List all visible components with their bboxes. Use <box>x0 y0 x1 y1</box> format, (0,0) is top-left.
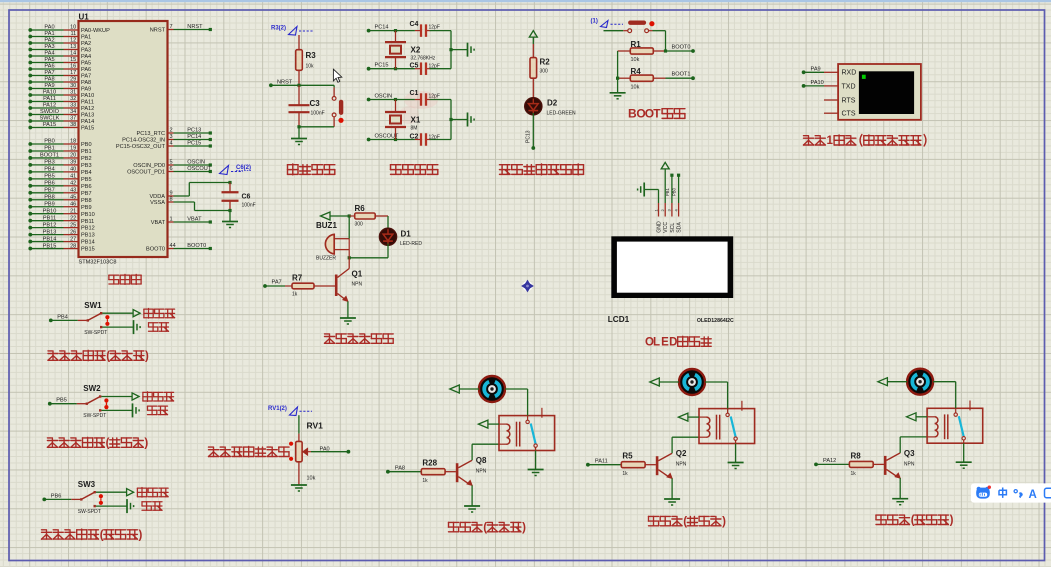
svg-text:PA5: PA5 <box>81 61 91 67</box>
node PA11 net label <box>586 459 608 467</box>
OLED pin 2 VCC <box>660 203 669 233</box>
transistor Q3 NPN <box>885 449 915 478</box>
svg-text:PB10: PB10 <box>43 208 57 214</box>
svg-text:C4: C4 <box>410 21 419 28</box>
svg-text:C5: C5 <box>410 63 419 70</box>
svg-text:10k: 10k <box>307 476 316 482</box>
wire top of RV1 <box>298 415 300 441</box>
U1 pin 41 (PB5) with net PB5 <box>28 174 91 183</box>
wire SW2 upper throw to power arrow <box>101 393 139 400</box>
wire SW3 lower throw to ground <box>96 499 134 513</box>
svg-text:R5: R5 <box>622 452 633 461</box>
caption triggered (for SW3) <box>142 502 162 511</box>
svg-text:SW-SPDT: SW-SPDT <box>83 413 106 419</box>
U1 pin 15 (PA5) with net PA5 <box>28 57 91 66</box>
svg-text:41: 41 <box>70 174 76 180</box>
svg-text:PA9: PA9 <box>44 83 54 89</box>
svg-text:6: 6 <box>170 166 173 172</box>
blue hint marker (1) <box>591 19 624 28</box>
U1 pin 46 (PB9) with net PB9 <box>28 201 91 210</box>
motor (load) <box>907 369 933 395</box>
U1 pin 29 (PA8) with net PA8 <box>28 77 91 86</box>
svg-text:PA12: PA12 <box>823 458 836 464</box>
svg-text:1k: 1k <box>622 471 628 477</box>
svg-text:SW2: SW2 <box>83 384 101 393</box>
svg-text:PA0: PA0 <box>44 25 54 31</box>
svg-text:OSCIN: OSCIN <box>375 94 393 100</box>
U1 pin 17 (PA7) with net PA7 <box>28 70 91 79</box>
capacitor C4 12pF <box>410 21 440 37</box>
ground of BOOT circuit <box>610 77 626 99</box>
capacitor C2 12pF <box>410 133 440 146</box>
terminal pin RTS <box>824 97 856 104</box>
junction and ground right of X1 <box>449 113 474 127</box>
switch SW2 SW-SPDT <box>83 384 108 419</box>
svg-text:PB9: PB9 <box>81 205 92 211</box>
svg-text:PA6: PA6 <box>81 67 91 73</box>
blue hint marker C6(2) <box>220 165 253 175</box>
svg-text:PB15: PB15 <box>81 247 95 253</box>
svg-text:C2: C2 <box>410 134 419 141</box>
svg-text:LED-RED: LED-RED <box>400 241 422 247</box>
svg-text:PA3: PA3 <box>81 48 91 54</box>
motor (load) <box>479 376 505 402</box>
svg-text:SW1: SW1 <box>84 301 102 310</box>
svg-text:31: 31 <box>70 90 76 96</box>
svg-text:PA2: PA2 <box>81 41 91 47</box>
wire PA12 to R8 <box>816 463 849 465</box>
power arrow left of R6 <box>321 212 350 220</box>
U1 pin 20 (PB2) with net BOOT1 <box>28 153 91 162</box>
svg-text:PA9: PA9 <box>81 87 91 93</box>
svg-text:PB4: PB4 <box>44 167 55 173</box>
svg-text:PA3: PA3 <box>44 44 54 50</box>
svg-text:R6: R6 <box>355 204 366 213</box>
svg-text:PB7: PB7 <box>44 187 55 193</box>
caption triggered (for SW1) <box>149 323 169 332</box>
LCD1 OLED display body <box>611 236 733 298</box>
terminal screen <box>859 71 914 114</box>
crystal X1 8M <box>385 100 421 140</box>
svg-text:13: 13 <box>70 44 76 50</box>
origin marker cross <box>522 280 533 291</box>
svg-text:R1: R1 <box>631 40 642 49</box>
svg-text:RV1(2): RV1(2) <box>268 406 287 412</box>
power arrow to relay coil <box>478 420 499 428</box>
svg-text:11: 11 <box>70 31 76 37</box>
relay contact <box>526 408 542 451</box>
svg-text:Q2: Q2 <box>676 449 687 458</box>
U1 pin 38 (PA15) with net PA15 <box>28 122 94 131</box>
caption IR sensor (soap) <box>48 350 149 362</box>
svg-text:21: 21 <box>70 208 76 214</box>
svg-text:PA0: PA0 <box>320 447 330 453</box>
svg-text:C6(2): C6(2) <box>236 165 251 171</box>
node PA7 net label <box>263 280 285 288</box>
svg-text:OSCOUT: OSCOUT <box>187 166 212 172</box>
svg-text:PC15: PC15 <box>187 141 201 147</box>
caption sound-light alarm circuit <box>325 334 394 343</box>
svg-text:PB2: PB2 <box>81 156 92 162</box>
U1 pin 40 (PB4) with net PB4 <box>28 167 91 176</box>
svg-text:PC13: PC13 <box>526 130 532 143</box>
svg-text:BOOT0: BOOT0 <box>672 45 691 51</box>
svg-text:12pF: 12pF <box>429 135 440 141</box>
svg-text:R3(2): R3(2) <box>271 26 286 32</box>
svg-text:PA13: PA13 <box>81 113 94 119</box>
U1 pin 6 OSCOUT_PD1 <box>127 166 212 175</box>
resistor R7 1k <box>285 274 335 298</box>
svg-text:25: 25 <box>70 222 76 228</box>
svg-text:NPN: NPN <box>352 282 363 288</box>
svg-text:1: 1 <box>827 135 834 147</box>
potentiometer RV1 10k <box>289 421 323 482</box>
svg-text:RTS: RTS <box>842 97 856 104</box>
caption 继电器(烘干机) <box>876 515 954 527</box>
U1 pin 32 (PA11) with net PA11 <box>28 96 93 105</box>
svg-text:PB13: PB13 <box>81 233 95 239</box>
resistor R6 300 <box>348 204 388 228</box>
wire button bottom to C3 bottom <box>297 125 334 128</box>
svg-text:300: 300 <box>355 222 364 228</box>
svg-text:): ) <box>522 522 526 534</box>
svg-text:(1): (1) <box>591 19 598 25</box>
U1 pin 28 (PB15) with net PB15 <box>28 243 94 252</box>
svg-text:PB5: PB5 <box>56 398 67 404</box>
wire motor right to relay NO contact <box>505 389 528 416</box>
resistor R3 10k <box>296 35 317 85</box>
wire SW1 lower throw to ground <box>102 320 140 334</box>
capacitor C5 12pF <box>410 62 440 74</box>
svg-text:12pF: 12pF <box>429 25 440 31</box>
svg-text:PC15-OSC32_OUT: PC15-OSC32_OUT <box>116 144 166 150</box>
svg-text:PB6: PB6 <box>44 181 55 187</box>
caption untriggered (for SW1) <box>144 309 175 319</box>
U1 pin 42 (PB6) with net PB6 <box>28 181 91 190</box>
caption program run indicator <box>500 164 584 175</box>
wire buzzer rail <box>348 216 350 258</box>
svg-text:SCL: SCL <box>670 223 676 233</box>
U1 pin 2 PC13_RTC <box>137 128 212 137</box>
svg-text:100nF: 100nF <box>242 203 256 209</box>
svg-text:12pF: 12pF <box>429 94 440 100</box>
node PC14 net label <box>367 25 389 33</box>
svg-text:PA12: PA12 <box>81 106 94 112</box>
ground below RV1 <box>291 462 307 491</box>
svg-text:PA2: PA2 <box>44 38 54 44</box>
svg-text:OSCOUT_PD1: OSCOUT_PD1 <box>127 170 165 176</box>
svg-text:PB4: PB4 <box>57 314 68 320</box>
svg-text:29: 29 <box>70 77 76 83</box>
caption IR sensor (faucet) <box>47 437 148 449</box>
svg-text:PB9: PB9 <box>44 201 55 207</box>
wire Q3 collector to relay coil <box>900 437 927 453</box>
svg-text:BUZ1: BUZ1 <box>316 221 337 230</box>
svg-text:Q8: Q8 <box>476 456 487 465</box>
U1 pin 16 (PA6) with net PA6 <box>28 64 91 73</box>
svg-text:PB11: PB11 <box>43 215 56 221</box>
wire PB5 to switch SW2 <box>50 403 86 405</box>
U1 pin 5 OSCIN_PD0 <box>133 160 212 169</box>
wire SW3 upper throw to power arrow <box>96 489 134 496</box>
wire SCL pin up <box>665 174 674 203</box>
svg-text:PA5: PA5 <box>44 57 54 63</box>
wire motor left to power arrow <box>450 385 479 393</box>
svg-text:PA8: PA8 <box>395 466 405 472</box>
svg-text:): ) <box>722 516 726 528</box>
svg-text:T: T <box>653 107 661 121</box>
svg-text:12pF: 12pF <box>429 64 440 70</box>
crystal X2 32.768KHz <box>385 31 436 69</box>
svg-text:10k: 10k <box>306 64 315 70</box>
svg-text:8M: 8M <box>411 126 418 132</box>
wire GND pin to ground (left) <box>638 183 659 204</box>
svg-text:PC14-OSC32_IN: PC14-OSC32_IN <box>122 138 165 144</box>
svg-text:43: 43 <box>70 187 76 193</box>
wire D1 to junction <box>348 244 388 260</box>
svg-text:PB7: PB7 <box>81 191 92 197</box>
capacitor C3 100nF <box>289 85 325 127</box>
svg-text:(: ( <box>483 522 487 534</box>
IME toolbar <box>971 483 1051 502</box>
svg-text:8: 8 <box>170 197 173 203</box>
capacitor C6 100nF <box>222 181 256 212</box>
svg-text:PB14: PB14 <box>81 240 95 246</box>
caption main chip <box>109 274 141 284</box>
svg-text:A: A <box>1029 489 1037 501</box>
U1 pin 21 (PB10) with net PB10 <box>28 208 94 217</box>
node PB5 net label <box>48 398 67 406</box>
node PA0 from RV1 wiper <box>311 447 350 454</box>
svg-text:PB0: PB0 <box>81 142 92 148</box>
svg-text:VSSA: VSSA <box>150 200 165 206</box>
svg-text:PB12: PB12 <box>81 226 95 232</box>
caption serial window (phone side) <box>804 135 926 148</box>
svg-text:SDA: SDA <box>677 222 683 233</box>
svg-text:18: 18 <box>70 139 76 145</box>
svg-text:VBAT: VBAT <box>187 217 202 223</box>
top window edge strip <box>0 0 1051 2</box>
svg-text:PB12: PB12 <box>43 222 57 228</box>
svg-text:PA4: PA4 <box>44 51 54 57</box>
caption untriggered (for SW3) <box>137 488 168 498</box>
relay contact <box>726 401 742 444</box>
power arrow above R2 <box>529 31 537 58</box>
svg-text:NRST: NRST <box>150 28 166 34</box>
svg-text:OSCIN: OSCIN <box>187 160 205 166</box>
svg-text:CTS: CTS <box>842 111 856 118</box>
caption crystal circuit <box>391 165 438 175</box>
svg-text:34: 34 <box>70 109 76 115</box>
switch SW3 SW-SPDT <box>78 480 103 515</box>
svg-text:14: 14 <box>70 51 76 57</box>
svg-text:PA8: PA8 <box>44 77 54 83</box>
node OSCOUT net label <box>367 134 399 142</box>
resistor R2 300 <box>530 58 550 79</box>
wire button right to BOOT0 row <box>649 31 666 51</box>
terminal pin RXD <box>824 70 856 77</box>
svg-text:20: 20 <box>70 153 76 159</box>
svg-text:PB5: PB5 <box>81 177 92 183</box>
svg-text:D: D <box>669 337 677 349</box>
U1 pin 25 (PB12) with net PB12 <box>28 222 94 231</box>
node PA9 to RXD <box>802 66 824 74</box>
relay body <box>927 408 983 443</box>
svg-text:SW3: SW3 <box>78 480 96 489</box>
svg-text:PC14: PC14 <box>187 134 201 140</box>
svg-text:17: 17 <box>70 70 76 76</box>
motor (load) <box>679 369 705 395</box>
wire PA11 to R5 <box>588 464 621 466</box>
push button (boot select) <box>628 21 655 33</box>
U1 pin 26 (PB13) with net PB13 <box>28 229 94 238</box>
svg-text:PB15: PB15 <box>43 243 57 249</box>
svg-text:R8: R8 <box>851 451 862 460</box>
svg-text:OLED12864I2C: OLED12864I2C <box>697 318 734 324</box>
svg-text:PB0: PB0 <box>44 139 55 145</box>
svg-text:OSCIN_PD0: OSCIN_PD0 <box>133 163 165 169</box>
svg-text:PC15: PC15 <box>375 63 389 69</box>
wire R6 to D1 <box>387 216 389 229</box>
svg-text:NPN: NPN <box>676 462 687 468</box>
svg-text:RV1: RV1 <box>307 421 324 431</box>
LED D2 LED-GREEN <box>525 98 576 117</box>
svg-text:PB1: PB1 <box>665 187 670 196</box>
svg-text:): ) <box>145 351 149 363</box>
svg-text:300: 300 <box>540 69 549 75</box>
U1 pin 3 PC14-OSC32_IN <box>122 134 212 143</box>
U1 pin 33 (PA12) with net PA12 <box>28 103 94 112</box>
svg-text:1k: 1k <box>292 292 298 298</box>
caption triggered (for SW2) <box>148 406 168 415</box>
U1 pin 19 (PB1) with net PB1 <box>28 146 91 155</box>
svg-text:SW-SPDT: SW-SPDT <box>84 330 107 336</box>
svg-text:PA7: PA7 <box>81 74 91 80</box>
svg-text:19: 19 <box>70 146 76 152</box>
caption untriggered (for SW2) <box>143 392 174 402</box>
svg-text:3: 3 <box>170 134 173 140</box>
svg-text:SW-SPDT: SW-SPDT <box>78 509 101 515</box>
node PA12 net label <box>814 458 836 466</box>
svg-text:1k: 1k <box>422 478 428 484</box>
wire relay common to ground <box>728 444 744 469</box>
svg-text:NRST: NRST <box>187 24 203 30</box>
svg-text:39: 39 <box>70 160 76 166</box>
svg-text:X2: X2 <box>411 46 421 55</box>
caption 继电器(洗手液) <box>449 522 527 534</box>
svg-text:PA14: PA14 <box>81 119 94 125</box>
U1 pin 30 (PA9) with net PA9 <box>28 83 91 92</box>
wire OSCOUT row <box>369 138 421 141</box>
svg-text:PB10: PB10 <box>81 212 95 218</box>
svg-text:PA15: PA15 <box>81 126 94 132</box>
wire motor left to power arrow <box>878 378 907 386</box>
U1 pin 45 (PB8) with net PB8 <box>28 194 91 203</box>
caption BOOT circuit <box>628 107 685 121</box>
wire PC15 cap to corner <box>426 50 451 69</box>
svg-text:GND: GND <box>657 221 663 233</box>
wire Q2 collector to relay coil <box>672 437 699 453</box>
svg-text:PB13: PB13 <box>43 229 57 235</box>
svg-text:SWDIO: SWDIO <box>40 109 60 115</box>
svg-text:12: 12 <box>70 38 76 44</box>
wire SDA pin up <box>672 174 681 203</box>
svg-text:PB6: PB6 <box>51 493 62 499</box>
svg-text:D2: D2 <box>547 99 558 108</box>
svg-text:PA11: PA11 <box>595 459 608 465</box>
svg-text:7: 7 <box>170 24 173 30</box>
svg-text:C6: C6 <box>242 194 251 201</box>
svg-text:PB3: PB3 <box>81 163 92 169</box>
svg-text:BOOT1: BOOT1 <box>40 153 59 159</box>
ground below C6 <box>222 211 238 228</box>
svg-text:STM32F103C8: STM32F103C8 <box>79 260 117 266</box>
svg-text:PA10: PA10 <box>81 93 94 99</box>
transistor Q8 NPN <box>457 456 487 485</box>
svg-text:(: ( <box>100 529 104 541</box>
svg-text:): ) <box>139 529 143 541</box>
node PC15 net label <box>367 63 389 71</box>
svg-text:TXD: TXD <box>842 83 856 90</box>
wire Q1 emitter to ground <box>340 301 356 324</box>
svg-text:PC13_RTC: PC13_RTC <box>137 131 166 137</box>
caption soap volume adjust <box>209 447 290 457</box>
U1 pin 13 (PA3) with net PA3 <box>28 44 91 53</box>
resistor R8 1k <box>849 451 884 477</box>
wire VDDA to C6 top <box>174 183 231 197</box>
svg-text:30: 30 <box>70 83 76 89</box>
power arrow to relay coil <box>678 413 699 421</box>
node PA8 net label <box>386 466 405 474</box>
wire Q2 emitter to ground <box>664 478 680 505</box>
svg-text:5: 5 <box>170 160 173 166</box>
power arrow to relay coil <box>907 413 928 421</box>
op-amp U1 body (STM32F103C8 MCU) <box>79 21 168 257</box>
U1 pin 12 (PA2) with net PA2 <box>28 38 91 47</box>
U1 pin 10 (PA0-WKUP) with net PA0 <box>28 25 110 34</box>
svg-text:LED-GREEN: LED-GREEN <box>547 111 577 117</box>
wire PC14 cap to corner <box>426 31 451 50</box>
OLED pin 3 SCL <box>667 203 676 233</box>
U1 pin 14 (PA4) with net PA4 <box>28 51 91 60</box>
svg-text:Q3: Q3 <box>904 449 915 458</box>
relay body <box>699 409 755 444</box>
svg-text:PA12: PA12 <box>43 103 56 109</box>
mouse cursor <box>333 69 341 82</box>
svg-text:R3: R3 <box>306 51 317 60</box>
svg-text:PB6: PB6 <box>81 184 92 190</box>
wire button left lead <box>604 30 628 32</box>
caption OLED display <box>645 336 711 348</box>
wire motor left to power arrow <box>650 378 679 386</box>
U1 pin 22 (PB11) with net PB11 <box>28 215 94 224</box>
node PA10 to TXD <box>802 80 824 88</box>
svg-text:22: 22 <box>70 215 76 221</box>
svg-text:R4: R4 <box>631 67 642 76</box>
wire OSCIN row <box>369 98 421 101</box>
svg-text:10k: 10k <box>631 85 640 91</box>
blue hint marker RV1(2) <box>268 406 312 416</box>
svg-text:NRST: NRST <box>277 79 293 85</box>
svg-text:BOOT0: BOOT0 <box>187 243 206 249</box>
transistor Q1 NPN <box>336 258 363 302</box>
svg-text:PA11: PA11 <box>81 100 94 106</box>
wire D2 to node PC13 <box>526 113 536 150</box>
wire PB6 to switch SW3 <box>44 498 80 500</box>
svg-text:PA4: PA4 <box>81 54 91 60</box>
U1 pin 1 VBAT <box>151 217 212 226</box>
svg-text:NPN: NPN <box>904 461 915 467</box>
